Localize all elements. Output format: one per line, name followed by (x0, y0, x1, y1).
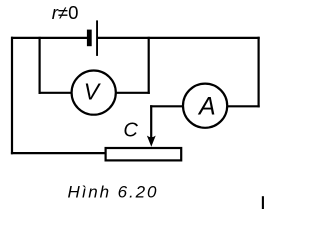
svg-text:C: C (123, 119, 138, 141)
wire: left rail (11, 37, 13, 154)
wire: right rail (258, 37, 260, 108)
wire: wiper drop to rheostat (150, 105, 152, 138)
rheostat C body (106, 148, 182, 160)
ammeter A1 circle (183, 84, 227, 128)
wire: voltmeter left drop (38, 37, 40, 94)
svg-text:A: A (197, 92, 216, 120)
svg-text:Hình 6.20: Hình 6.20 (68, 182, 159, 201)
wire: voltmeter right lead (116, 92, 150, 94)
battery positive terminal (long thin line) (96, 20, 98, 56)
stray mark: cropped stroke at bottom-right edge (262, 196, 264, 209)
wire: ammeter right lead (227, 105, 260, 107)
battery negative terminal (short thick bar) (87, 30, 92, 47)
wire: voltmeter left lead (39, 92, 73, 94)
wire: ammeter left lead (150, 105, 183, 107)
wiper arrowhead (147, 136, 156, 147)
wire: bottom segment from left rail to rheostat (11, 152, 105, 154)
svg-text:V: V (84, 78, 102, 104)
wire: top-right segment from battery to right rail (98, 37, 260, 39)
svg-text:r≠0: r≠0 (52, 2, 79, 23)
wire: voltmeter right drop (148, 37, 150, 94)
voltmeter U1 circle (72, 71, 116, 115)
wire: top-left segment from left rail to battery (11, 37, 87, 39)
